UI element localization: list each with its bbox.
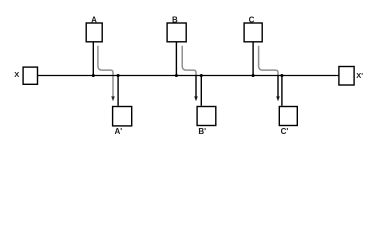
station A box	[86, 23, 102, 42]
wire B drop	[175, 42, 177, 75]
node A junction dot	[92, 74, 95, 77]
station X box	[23, 67, 37, 84]
svg-text:X': X'	[356, 71, 363, 80]
svg-text:A': A'	[114, 127, 122, 136]
wire A signal path (gray)	[98, 46, 113, 97]
station B box	[167, 23, 186, 42]
svg-text:C': C'	[281, 127, 289, 136]
arrowhead B to B'	[194, 96, 198, 101]
arrowhead C to C'	[276, 96, 280, 101]
wire B' drop	[200, 76, 202, 106]
station A' box	[113, 107, 132, 126]
node C junction dot	[252, 74, 255, 77]
station X' box	[339, 67, 354, 86]
wire A' drop	[117, 76, 119, 106]
node A' junction dot	[117, 74, 120, 77]
wire C' drop	[281, 76, 283, 106]
svg-text:X: X	[14, 70, 19, 79]
wire C signal path (gray)	[259, 46, 278, 76]
svg-text:A: A	[91, 15, 97, 24]
node B junction dot	[175, 74, 178, 77]
station C box	[244, 23, 262, 42]
wire C drop	[252, 42, 254, 75]
svg-text:B: B	[172, 15, 178, 24]
wire B signal path (gray)	[182, 46, 196, 76]
station C' box	[279, 107, 297, 126]
bus line X to X'	[38, 75, 339, 77]
svg-text:B': B'	[198, 127, 206, 136]
node C' junction dot	[280, 74, 283, 77]
svg-text:C: C	[249, 15, 255, 24]
station B' box	[197, 107, 216, 126]
node B' junction dot	[200, 74, 203, 77]
wire A drop	[92, 42, 94, 75]
arrowhead A to A'	[111, 96, 115, 101]
